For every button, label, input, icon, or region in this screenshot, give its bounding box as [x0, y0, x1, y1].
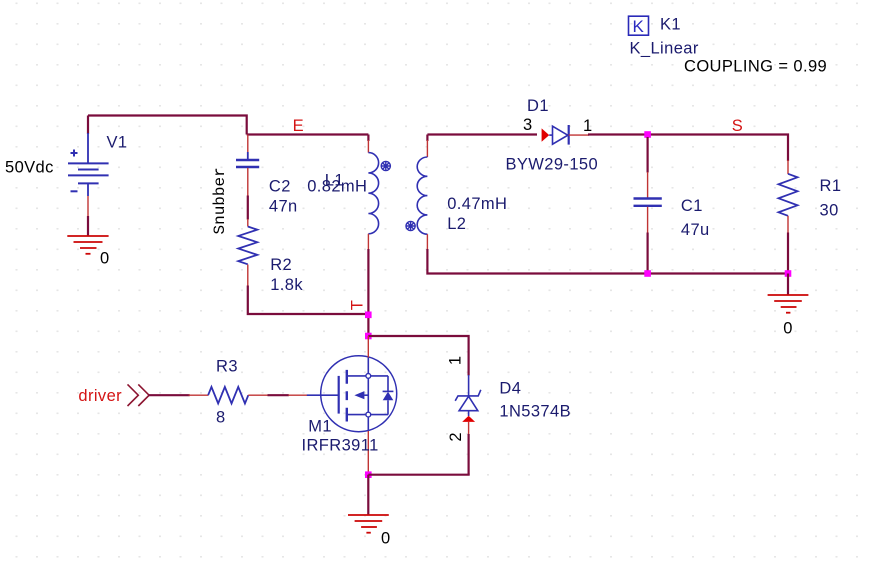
wire M1 ground stub [367, 475, 369, 515]
wire V1 top pin [87, 116, 89, 135]
M1 bulk arrow [354, 391, 364, 399]
svg-text:T: T [349, 300, 367, 310]
svg-text:C2: C2 [269, 177, 291, 195]
wire rail E [247, 133, 369, 135]
svg-text:E: E [293, 117, 304, 135]
wire R3 to gate [248, 394, 268, 396]
svg-text:M1: M1 [308, 417, 332, 435]
svg-text:S: S [732, 117, 743, 135]
wire R2 bottom [247, 265, 249, 287]
svg-text:30: 30 [820, 201, 839, 219]
wire R1 top pin [787, 160, 789, 174]
junction M1 source [365, 471, 372, 478]
resistor R3 [208, 387, 248, 404]
wire D4 bottom pin [468, 422, 470, 435]
svg-text:1: 1 [583, 117, 593, 135]
junction R1 bottom [785, 270, 792, 277]
junction at C1 top [644, 131, 651, 138]
diode D1 [549, 125, 569, 145]
inductor L2 [426, 135, 428, 142]
wire C1 bottom [647, 207, 649, 234]
coupling K1 symbol [629, 16, 649, 36]
svg-text:K_Linear: K_Linear [630, 40, 699, 58]
wire D4 top pin [468, 375, 470, 396]
voltage source V1 [68, 150, 109, 197]
offpage connector chevrons [128, 384, 150, 406]
M1 body diode arrow [383, 392, 394, 401]
svg-text:0: 0 [100, 250, 110, 268]
wire L2 top to D1 [427, 133, 537, 135]
L2 phase dot [406, 221, 415, 230]
svg-text:Snubber: Snubber [211, 167, 229, 234]
svg-text:IRFR3911: IRFR3911 [302, 436, 379, 454]
svg-text:1.8k: 1.8k [270, 276, 303, 294]
wire V1 top to corner [88, 116, 248, 135]
junction MOSFET drain branch [365, 333, 372, 340]
ground 0 under V1 [67, 236, 108, 254]
junction T [365, 312, 372, 319]
wire L2 bottom [426, 234, 428, 250]
M1 drain pin [367, 358, 369, 374]
svg-text:47n: 47n [269, 197, 298, 215]
inductor L1 [367, 135, 369, 142]
M1 pin nodes [366, 374, 371, 379]
D1 pin 1 lead [569, 134, 589, 136]
wire R1 ground stub [787, 274, 789, 296]
ground 0 under R1 [768, 295, 809, 313]
svg-text:L2: L2 [447, 215, 466, 233]
wire D1 to S corner [588, 135, 789, 162]
capacitor C2 [236, 160, 259, 167]
svg-text:0: 0 [783, 320, 793, 338]
ground 0 under M1 [348, 515, 389, 533]
svg-text:2: 2 [447, 432, 465, 442]
svg-text:K1: K1 [660, 15, 681, 33]
L1 phase dot [381, 161, 390, 170]
wire drain junction to D4 [368, 336, 469, 376]
svg-text:50Vdc: 50Vdc [5, 159, 54, 177]
wire C1 top [646, 137, 648, 173]
wire C2 top pin [247, 135, 249, 154]
svg-text:D1: D1 [527, 97, 549, 115]
D4 current marker [462, 416, 475, 422]
svg-text:0: 0 [381, 530, 391, 548]
svg-text:BYW29-150: BYW29-150 [506, 156, 599, 174]
wire source junction to D4 bottom [368, 474, 469, 476]
svg-text:driver: driver [78, 387, 122, 405]
M1 source pin [367, 417, 369, 431]
capacitor C1 [634, 199, 662, 206]
svg-text:R2: R2 [270, 256, 292, 274]
svg-text:1N5374B: 1N5374B [499, 403, 571, 421]
svg-text:47u: 47u [681, 221, 710, 239]
wire driver to R3 [149, 394, 190, 396]
wire V1 bottom pin [87, 196, 89, 217]
transistor M1 [321, 356, 397, 432]
resistor R1 [779, 174, 798, 216]
svg-text:0.47mH: 0.47mH [447, 195, 507, 213]
wire R1 bottom [787, 216, 789, 234]
junction C1 bottom [644, 270, 651, 277]
svg-text:K: K [633, 17, 645, 36]
svg-text:8: 8 [216, 408, 226, 426]
svg-text:R3: R3 [216, 358, 238, 376]
svg-text:D4: D4 [499, 380, 521, 398]
wire L1 bottom [367, 234, 369, 250]
svg-text:0.82mH: 0.82mH [307, 178, 367, 196]
wire C2 to R2 [247, 168, 249, 197]
svg-text:V1: V1 [107, 134, 128, 152]
svg-text:3: 3 [523, 116, 533, 134]
zener diode D4 [455, 390, 481, 416]
svg-text:COUPLING = 0.99: COUPLING = 0.99 [684, 57, 827, 75]
svg-text:R1: R1 [820, 177, 842, 195]
svg-text:C1: C1 [681, 197, 703, 215]
svg-text:1: 1 [446, 356, 464, 366]
D1 current marker [542, 128, 550, 141]
resistor R2 [238, 227, 257, 265]
